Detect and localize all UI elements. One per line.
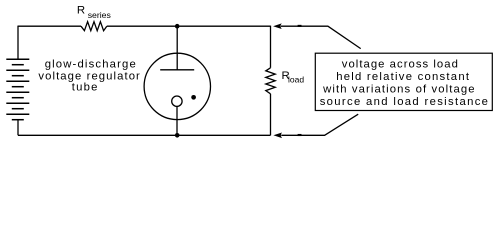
svg-text:glow-discharge: glow-discharge [45,58,137,70]
node: bottom junction dot [175,133,180,138]
wire: right vertical from top-right corner down to R_load [270,26,272,68]
label R_load [282,70,305,85]
battery (6 cells, alternating long/short plates) [6,59,29,119]
tube V1 envelope (glow-discharge regulator tube circle) [144,53,210,119]
svg-text:source and load resistance: source and load resistance [320,96,490,108]
note box [315,53,492,110]
annotation: glow-discharge voltage regulator tube label [38,58,141,93]
resistor R_series (zigzag) [81,22,107,31]
wire: top-left horizontal segment from battery corner to R_series [18,25,81,27]
svg-text:tube: tube [72,81,99,93]
svg-text:R: R [77,5,85,17]
wire: bottom horizontal from bottom-left corner to bottom-right corner [18,134,271,136]
wire: right vertical from R_load down to bottom-right corner [270,94,272,136]
wire: left vertical from top corner down to battery [17,26,19,60]
wire: left vertical from battery bottom to bottom-left corner [17,120,19,136]
wire: anode stem from top junction into tube [176,26,178,70]
svg-text:held relative constant: held relative constant [336,71,470,83]
tube cathode (small circle) [172,96,182,106]
gas-fill indicator dot [191,95,196,100]
label R_series [77,5,112,20]
svg-text:load: load [288,74,304,84]
tube anode plate bar [160,69,194,71]
node: top junction dot [175,24,180,29]
svg-text:with variations of voltage: with variations of voltage [322,83,476,95]
svg-text:voltage across load: voltage across load [342,58,459,70]
note box text [320,58,490,108]
resistor R_load (vertical zigzag) [266,68,275,94]
svg-text:series: series [88,10,112,20]
wire: cathode stem down to bottom junction [176,106,178,135]
annotation arrow (bottom): from note box toward bottom-right corner [273,114,358,138]
annotation arrow (top): from note box toward top-right corner [273,23,361,48]
wire: top horizontal from R_series to top-right corner [107,25,271,27]
